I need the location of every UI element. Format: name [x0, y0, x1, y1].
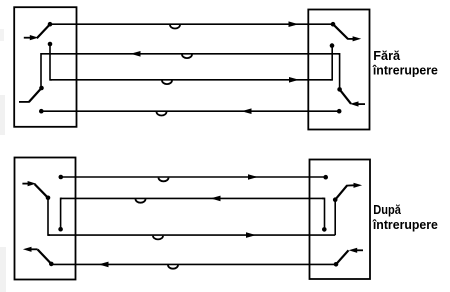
wire W3 (third, left to right) — [50, 79, 332, 81]
bottom right box: switch blade from F up — [335, 186, 347, 200]
bottom right box: wire from F down to W7 — [334, 200, 336, 235]
left box: pivot dot P1 on W1 — [48, 22, 53, 27]
left box: station stub plain — [19, 101, 30, 103]
bottom left box: switch blade down to B — [35, 184, 48, 198]
bottom right box: station stub arrow out (receive) — [346, 183, 362, 188]
bottom right box: contact dot E2 on W5 — [323, 175, 328, 180]
left box: contact dot C2 on W4 — [39, 109, 44, 114]
left box: wire from C1 down then right to W3 — [50, 44, 52, 80]
station box left (bottom diagram) — [15, 158, 76, 280]
arrow on wire W3 pointing right — [289, 77, 299, 83]
right box: pivot dot P4 — [337, 87, 342, 92]
station box right (bottom diagram) — [310, 160, 371, 280]
bottom right box: station stub arrow in (transmit) — [349, 248, 363, 253]
left box: pivot dot P2 — [39, 86, 44, 91]
wire W7 (third, left to right) — [48, 234, 335, 236]
left box: contact dot C1 — [48, 42, 53, 47]
arrow on wire W6 pointing left — [211, 196, 221, 202]
bottom right box: pivot dot F — [333, 197, 338, 202]
bottom right box: contact dot G2 — [322, 227, 327, 232]
bottom right box: W6 corner down to G2 — [322, 198, 325, 229]
right box: wire from W3 up to C3 — [330, 46, 332, 80]
bottom right box: pivot dot H on W8 — [334, 262, 339, 267]
bottom right box: switch blade from H up — [336, 250, 349, 264]
bottom left box: pivot dot D on W8 — [49, 262, 54, 267]
wire W6 (second, right to left) — [60, 197, 324, 199]
cable hop bump on wire W2 — [182, 54, 192, 58]
cable hop bump on wire W5 — [159, 178, 169, 182]
station box right (top diagram) — [308, 10, 369, 130]
arrow on wire W2 pointing left — [131, 51, 141, 57]
right box: station stub arrow in (transmit) — [350, 101, 365, 106]
svg-text:întrerupere: întrerupere — [372, 217, 438, 232]
background smudge left edge lower — [0, 247, 6, 292]
right box: contact dot C3 — [330, 43, 335, 48]
left box: W2 turn down to P2 — [41, 54, 42, 88]
cable hop bump on wire W7 — [153, 236, 163, 240]
wire W2 (second, right to left) — [41, 53, 340, 55]
arrow on wire W1 pointing right — [289, 21, 299, 27]
arrow on wire W8 pointing left — [99, 262, 109, 268]
right box: switch blade from P3 — [333, 24, 348, 39]
svg-text:întrerupere: întrerupere — [372, 63, 438, 78]
svg-text:După: După — [373, 202, 401, 217]
right box: W2 corner down to P4 — [338, 54, 340, 90]
right box: pivot dot P3 on W1 — [331, 22, 336, 27]
background smudge left edge middle — [0, 95, 5, 135]
right box: switch blade from P4 — [340, 89, 351, 103]
wire W8 (fourth, right to left) — [51, 263, 336, 265]
left box: station stub arrow (transmit) — [24, 35, 39, 40]
cable hop bump on wire W8 — [168, 265, 178, 269]
cable hop bump on wire W4 — [157, 112, 167, 116]
arrow on wire W5 pointing right — [248, 174, 258, 180]
svg-text:Fără: Fără — [373, 48, 401, 63]
left box: switch blade open (down-left) — [29, 88, 42, 102]
bottom left box: station stub arrow out (receive) — [23, 247, 38, 252]
cable hop bump on wire W3 — [162, 80, 172, 84]
bottom left box: contact dot E1 on W5 — [59, 175, 64, 180]
background smudge left edge upper — [0, 29, 4, 41]
arrow on wire W4 pointing left — [242, 108, 252, 114]
bottom left box: pivot dot B — [46, 196, 51, 201]
station box left (top diagram) — [14, 7, 76, 127]
left box: switch blade to W1 pivot — [37, 24, 50, 38]
bottom left box: W6 turn down to GL — [61, 198, 62, 229]
arrow on wire W7 pointing right — [246, 232, 256, 238]
bottom left box: switch blade from stub down to D — [38, 250, 52, 264]
cable hop bump on wire W1 — [170, 25, 180, 29]
right box: contact dot C4 on W4 — [337, 109, 342, 114]
cable hop bump on wire W6 — [136, 199, 146, 203]
wire W1 (top, left to right) — [50, 23, 333, 25]
wire W4 (fourth, right to left) — [41, 110, 339, 112]
bottom left box: contact dot GL — [58, 227, 63, 232]
right box: station stub arrow out (receive) — [348, 36, 362, 41]
wire W5 (top, left to right) — [61, 176, 326, 178]
bottom left box: wire from B down then right to W7 — [48, 198, 50, 235]
bottom left box: station stub arrow (transmit) — [22, 181, 36, 186]
